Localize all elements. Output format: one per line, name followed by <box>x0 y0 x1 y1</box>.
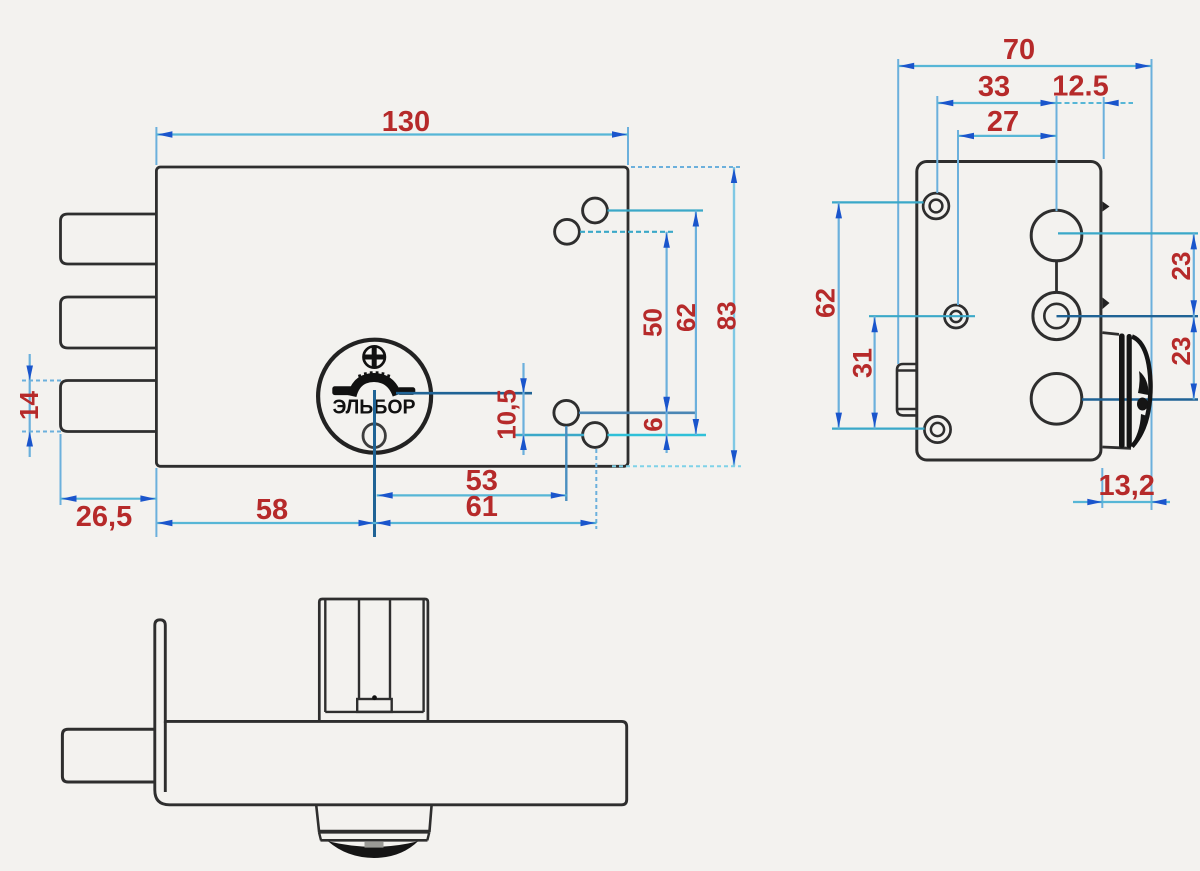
dimension 27 arrows <box>959 133 1056 140</box>
side view: cylinder ring 1 <box>1119 334 1125 449</box>
dimension 33 text <box>978 71 1010 103</box>
top circle centre projection <box>1058 232 1198 234</box>
svg-text:23: 23 <box>1166 252 1196 281</box>
bottom view: cylinder channel walls <box>359 600 390 699</box>
dimension 12.5 arrow <box>1104 100 1119 106</box>
bottom view: case block inner walls <box>325 600 423 712</box>
dimension 53 arrows <box>378 492 566 499</box>
hole D extension down <box>595 449 597 529</box>
svg-text:14: 14 <box>14 391 44 420</box>
dimension 62 side arrows <box>836 203 843 427</box>
dimension 27 line <box>958 135 1057 137</box>
hole B projection line <box>580 231 676 233</box>
front view: screw hole C <box>554 400 579 425</box>
side view: connector line between circles <box>1055 261 1058 293</box>
svg-text:50: 50 <box>638 308 668 337</box>
dimension 61 text <box>466 491 498 523</box>
side view: cylinder dark detail lower <box>1130 414 1147 447</box>
dimension 12.5 text <box>1052 71 1108 103</box>
front view: phillips screw head <box>364 346 385 367</box>
side view: latch notch on left edge <box>897 364 917 415</box>
dimension 14 text <box>14 391 44 420</box>
dimension 10,5 text <box>492 389 522 440</box>
svg-text:12.5: 12.5 <box>1052 71 1108 103</box>
middle circle centre projection <box>1057 315 1199 317</box>
dimension 61 arrows <box>376 520 596 526</box>
dimension 23 top arrows <box>1191 234 1198 315</box>
hole D projection to 10,5 <box>514 434 584 437</box>
dimension 14 arrows <box>26 366 33 447</box>
bottom view: faceplate inner edge <box>164 721 167 792</box>
dimension 23 top text <box>1166 252 1196 281</box>
centre line vertical of cylinder <box>373 390 376 537</box>
side view: cylinder neck outline <box>1103 333 1132 449</box>
side view: lock case <box>917 162 1101 461</box>
side view: top bolt-hole circle <box>1031 210 1082 261</box>
front view: lower key oval <box>363 424 385 448</box>
dimension 62 text <box>671 303 701 332</box>
side view: cylinder ring 2 <box>1127 334 1132 448</box>
hole A projection line <box>608 209 704 211</box>
dimension 27 text <box>987 106 1019 138</box>
bottom view: case block outline <box>319 599 428 723</box>
centre line horizontal of cylinder <box>396 392 532 395</box>
front view: screw hole A top-right <box>583 198 608 223</box>
side view: fixing screw middle <box>945 305 968 328</box>
side view: middle cylinder circle <box>1033 292 1080 339</box>
side view: cylinder dark detail upper <box>1138 371 1149 395</box>
dimension 31 line <box>873 316 875 428</box>
dimension 12.5 tail line <box>1057 102 1134 104</box>
side view: set-screw tip upper <box>1103 202 1110 212</box>
dimension 13,2 text <box>1098 470 1154 502</box>
dimension 58 arrows <box>157 520 373 526</box>
bottom view: body and faceplate outline <box>155 620 627 805</box>
dimension 14 projection lines <box>22 381 61 432</box>
svg-text:26,5: 26,5 <box>76 501 132 533</box>
dimension 23 top line <box>1193 233 1195 316</box>
top screw projection line <box>832 201 924 203</box>
svg-text:10,5: 10,5 <box>492 389 522 440</box>
svg-text:23: 23 <box>1166 337 1196 366</box>
svg-text:58: 58 <box>256 494 288 526</box>
bottom view: channel cam box <box>357 699 392 712</box>
dimension 62 side line <box>838 202 840 428</box>
dimension 6 line <box>665 412 667 453</box>
front view: lock body plate <box>156 167 628 466</box>
front view: bolt 2 <box>61 297 158 348</box>
dimension 58 text <box>256 494 288 526</box>
svg-text:33: 33 <box>978 71 1010 103</box>
front view: screw hole D bottom-right <box>583 423 608 448</box>
dimension 130 text <box>382 106 430 138</box>
dimension 62 side text <box>811 288 841 318</box>
dimension 53 text <box>466 465 498 497</box>
bottom view: cylinder collar band <box>318 832 429 840</box>
bolt bottom extension down <box>60 434 62 505</box>
dimension 83 line <box>733 167 735 466</box>
dimension 23 bottom line <box>1193 316 1195 399</box>
svg-text:6: 6 <box>638 417 668 431</box>
dimension 58 line <box>156 522 374 524</box>
left body extension down <box>155 468 157 537</box>
dimension 83 text <box>712 301 742 330</box>
bottom circle centre projection <box>1082 398 1198 400</box>
hole C extension down <box>565 426 567 501</box>
dimension 70 text <box>1003 34 1035 66</box>
bottom view: cylinder collar trapezoid <box>316 805 431 831</box>
side view: cylinder dark detail middle <box>1137 398 1148 411</box>
hole D projection line <box>608 434 707 436</box>
front view: bolt 1 <box>61 214 158 264</box>
bottom screw projection line <box>832 428 925 430</box>
dimension 61 line <box>375 522 597 524</box>
dimension 23 bottom arrows <box>1191 317 1198 398</box>
dimension 70 line <box>898 65 1151 67</box>
svg-text:31: 31 <box>848 348 878 378</box>
dimension 31 arrows <box>871 317 878 427</box>
dimension 10,5 line <box>522 363 524 455</box>
dimension 27 extension line <box>957 130 959 305</box>
hole C projection line <box>579 411 695 414</box>
dimension 130 line <box>156 133 628 135</box>
dimension 62 line <box>695 211 697 436</box>
dimension 83 arrows <box>731 168 737 465</box>
dimension 6 text <box>638 417 668 431</box>
dimension 83 extension lines <box>612 167 741 466</box>
dimension 33 arrows <box>938 100 1055 106</box>
side view: cylinder dome outline <box>1132 337 1151 447</box>
dimension 23 bottom text <box>1166 337 1196 366</box>
dimension 13,2 arrows <box>1087 499 1166 505</box>
svg-text:130: 130 <box>382 106 430 138</box>
dimension 130 extension lines <box>156 127 628 165</box>
cylinder left extension line <box>1101 468 1103 508</box>
dimension 33 line <box>937 102 1056 104</box>
centre extension above circles <box>1056 96 1058 211</box>
dimension 33 extension line <box>936 96 938 193</box>
side view: fixing screw bottom <box>924 416 950 442</box>
dimension 6 arrows <box>663 398 670 450</box>
svg-text:13,2: 13,2 <box>1098 470 1154 502</box>
dimension 50 arrows <box>663 233 670 412</box>
front view: cylinder escutcheon circle <box>318 340 431 453</box>
bottom view: cylinder face keyway gap <box>365 842 384 848</box>
dimension 26,5 arrows <box>62 495 156 502</box>
dimension 13,2 line <box>1073 501 1170 503</box>
svg-text:27: 27 <box>987 106 1019 138</box>
svg-text:62: 62 <box>671 303 701 332</box>
dimension 70 extension lines <box>898 59 1151 510</box>
front view: bolt 3 <box>61 381 158 432</box>
bottom view: cam dot <box>372 695 377 700</box>
bottom view: cylinder face dark crescent <box>328 841 418 858</box>
dimension 130 arrows <box>157 131 627 138</box>
bottom view: bolt <box>62 729 154 782</box>
middle screw projection line <box>869 315 975 317</box>
side view: set-screw tip lower <box>1103 298 1110 310</box>
front view: ELBOR logo arch <box>332 371 415 396</box>
dimension 70 arrows <box>899 63 1150 69</box>
dimension 31 text <box>848 348 878 378</box>
body right edge extension <box>1103 97 1105 159</box>
dimension 10,5 arrows <box>520 378 527 450</box>
svg-text:83: 83 <box>712 301 742 330</box>
dimension 50 line <box>665 232 667 413</box>
dimension 26,5 line <box>61 498 157 500</box>
dimension 62 arrows <box>693 212 700 435</box>
dimension 14 line <box>29 354 31 457</box>
dimension 26,5 text <box>76 501 132 533</box>
svg-text:70: 70 <box>1003 34 1035 66</box>
side view: bottom bolt-hole circle <box>1031 374 1082 425</box>
front view: screw hole B <box>555 219 580 244</box>
svg-text:61: 61 <box>466 491 498 523</box>
svg-text:62: 62 <box>811 288 841 318</box>
dimension 53 line <box>377 494 567 496</box>
side view: fixing screw top <box>923 193 949 219</box>
dimension 50 text <box>638 308 668 337</box>
front view: ELBOR logo text <box>333 396 416 419</box>
